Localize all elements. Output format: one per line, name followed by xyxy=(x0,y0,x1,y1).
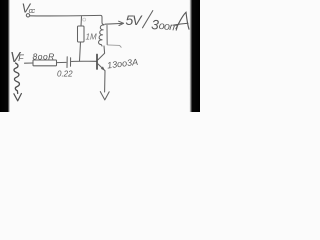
svg-text:8ooR: 8ooR xyxy=(33,52,55,62)
svg-text:oom: oom xyxy=(158,20,179,34)
svg-text:1M: 1M xyxy=(86,33,97,42)
svg-text:0.22: 0.22 xyxy=(57,70,73,79)
